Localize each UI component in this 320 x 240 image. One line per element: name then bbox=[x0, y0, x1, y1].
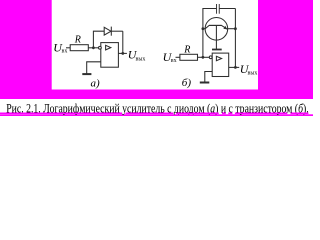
svg-text:R: R bbox=[74, 34, 81, 45]
wire input b bbox=[176, 56, 180, 58]
resistor R (a) bbox=[70, 45, 88, 51]
ground (a) bbox=[82, 73, 91, 75]
svg-text:вых: вых bbox=[136, 57, 146, 63]
svg-text:вых: вых bbox=[248, 71, 258, 77]
wire resistor to node a bbox=[88, 47, 98, 49]
wire feedback left vertical (b) bbox=[203, 9, 216, 58]
op-amp U2 (b) body bbox=[212, 53, 229, 76]
diode VD (a) bbox=[104, 27, 123, 36]
op-amp U1 (a) body bbox=[101, 43, 119, 68]
wire input a bbox=[66, 47, 70, 49]
wire feedback left vertical (a) bbox=[93, 31, 104, 48]
magenta page background bbox=[0, 0, 313, 116]
node input junction (b) bbox=[202, 56, 205, 59]
wire feedback right vertical (a) bbox=[122, 31, 124, 53]
op-amp U2 triangle symbol bbox=[216, 56, 221, 60]
wire noninverting input (a) bbox=[87, 62, 101, 74]
wire collector stub (b) bbox=[203, 28, 205, 30]
caption spellcheck underline bbox=[0, 112, 308, 114]
op-amp U1 inverting bubble bbox=[99, 46, 102, 49]
white figure area bbox=[52, 0, 258, 90]
svg-text:R: R bbox=[183, 44, 190, 55]
svg-text:вх: вх bbox=[62, 48, 68, 54]
node output junction (b) bbox=[234, 66, 237, 69]
wire feedback right vertical (b) bbox=[234, 9, 236, 68]
ground transistor base (b) bbox=[212, 49, 222, 51]
wire emitter stub (b) bbox=[227, 28, 236, 30]
capacitor C (b) bbox=[217, 4, 236, 14]
wire resistor to node b bbox=[198, 56, 210, 58]
node output junction (a) bbox=[121, 52, 124, 55]
op-amp U2 inverting bubble bbox=[209, 56, 212, 59]
ground (b) bbox=[200, 82, 210, 84]
resistor R (b) bbox=[180, 54, 198, 60]
wire noninverting input (b) bbox=[205, 72, 212, 83]
op-amp U1 triangle symbol bbox=[106, 45, 111, 50]
node input junction (a) bbox=[92, 46, 95, 49]
white caption band bbox=[0, 99, 313, 114]
wire output (b) bbox=[229, 66, 240, 68]
transistor VT (b) bbox=[205, 18, 228, 50]
node emitter junction (b) bbox=[234, 27, 237, 30]
wire output (a) bbox=[118, 52, 127, 54]
node collector junction (b) bbox=[202, 27, 205, 30]
svg-text:а): а) bbox=[91, 77, 101, 89]
svg-text:вх: вх bbox=[171, 58, 177, 64]
svg-text:б): б) bbox=[182, 77, 192, 89]
